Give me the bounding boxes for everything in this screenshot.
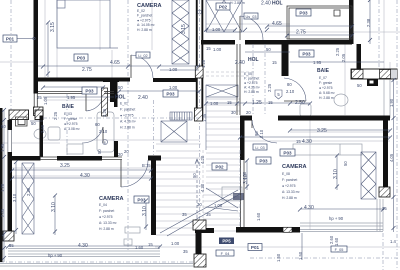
svg-text:20: 20: [124, 149, 129, 154]
svg-text:20: 20: [118, 152, 123, 157]
svg-text:A: 3.08 m²: A: 3.08 m²: [64, 127, 81, 131]
svg-text:F: parchet: F: parchet: [244, 77, 259, 81]
svg-text:4.30: 4.30: [304, 205, 314, 211]
room label CAMERA top-left: [137, 3, 162, 32]
svg-text:3.10: 3.10: [12, 193, 17, 202]
hatch block right room right: [379, 187, 390, 197]
sink left baie: [48, 127, 60, 140]
svg-text:P02: P02: [215, 165, 224, 170]
svg-text:4.65: 4.65: [110, 60, 120, 66]
room label HOL right: [235, 57, 261, 94]
radiator bottom-left room: [125, 227, 140, 233]
door arc bottom-right room: [252, 120, 277, 143]
label box P03 right room: [256, 157, 271, 164]
label box P03 balcony: [296, 9, 311, 16]
svg-text:F: parchet: F: parchet: [99, 209, 114, 213]
svg-text:1.95: 1.95: [313, 60, 322, 65]
svg-text:2.75: 2.75: [296, 30, 306, 36]
label box F_05: [331, 246, 347, 252]
svg-text:P03: P03: [85, 89, 94, 94]
svg-text:1.20: 1.20: [201, 59, 206, 68]
svg-text:HOL: HOL: [115, 95, 126, 101]
svg-text:50: 50: [343, 161, 348, 166]
sink right baie: [334, 94, 348, 106]
svg-text:4.05: 4.05: [389, 153, 394, 162]
room label BAIE right: [317, 68, 336, 100]
shaft black box right: [367, 79, 378, 86]
svg-text:A: 4.36 m²: A: 4.36 m²: [120, 120, 137, 124]
room label CAMERA bottom-right: [282, 164, 307, 200]
label box P03 left baie: [82, 87, 97, 94]
stair lower treads: [156, 144, 201, 235]
svg-text:● +2.975: ● +2.975: [319, 86, 333, 90]
svg-text:CAMERA: CAMERA: [282, 164, 307, 170]
door arc hol top Us_03: [240, 16, 263, 40]
room label HOL left: [115, 95, 137, 130]
lattice pier bottom-left room: [22, 163, 34, 234]
svg-text:2.05: 2.05: [341, 53, 346, 62]
room label BAIE left: [62, 104, 81, 131]
svg-text:35: 35: [183, 249, 188, 254]
svg-text:● +2.975: ● +2.975: [282, 184, 296, 188]
svg-text:A: 13.33 m²: A: 13.33 m²: [99, 221, 117, 225]
label box P03 bottom-left: [134, 196, 149, 203]
svg-text:3.10: 3.10: [333, 169, 339, 179]
svg-text:P03: P03: [299, 11, 308, 16]
svg-text:1.60: 1.60: [334, 237, 339, 246]
small wall stub left of P01 area: [195, 228, 214, 233]
label box Li_02: [136, 52, 150, 58]
svg-text:E_05: E_05: [244, 72, 252, 76]
balcony top-right outline: [287, 6, 352, 39]
svg-text:P03: P03: [259, 159, 268, 164]
svg-text:50: 50: [266, 47, 271, 52]
svg-text:4.20: 4.20: [200, 155, 205, 164]
svg-text:Li_02: Li_02: [138, 54, 147, 58]
svg-text:E_01: E_01: [120, 102, 128, 106]
wall right room right black: [383, 118, 388, 188]
furniture bottom-right room: [222, 187, 242, 200]
svg-text:1.60: 1.60: [256, 212, 261, 221]
svg-text:hp + 90: hp + 90: [329, 216, 344, 221]
svg-text:15: 15: [206, 46, 211, 51]
svg-text:● +2.975: ● +2.975: [137, 18, 151, 22]
svg-text:1.95: 1.95: [67, 95, 76, 100]
grey window band bottom-right room: [300, 199, 383, 232]
svg-text:A: 4.36 m²: A: 4.36 m²: [244, 86, 261, 90]
axis bottom right horizontal: [250, 257, 400, 259]
hatch block central wall upper: [195, 66, 203, 78]
svg-text:1.00: 1.00: [210, 101, 219, 106]
hatch box stair pier: [193, 220, 206, 230]
wall V2 left baie right: [114, 81, 118, 107]
svg-text:1.05: 1.05: [43, 96, 48, 105]
vertical thin double x237 stair/hol divider: [237, 44, 240, 115]
svg-text:2.50: 2.50: [295, 100, 305, 106]
wall right below corner: [357, 44, 362, 70]
svg-text:1.4: 1.4: [390, 239, 396, 244]
small white box window left: [16, 117, 28, 126]
svg-text:2.10: 2.10: [259, 129, 264, 138]
svg-text:4.30: 4.30: [242, 171, 247, 180]
svg-text:15: 15: [148, 242, 153, 247]
svg-text:1.90: 1.90: [389, 98, 394, 107]
label box P03 hol mid: [163, 90, 178, 97]
svg-text:E_03: E_03: [64, 112, 72, 116]
svg-text:H: 2.88 m: H: 2.88 m: [230, 1, 245, 5]
svg-text:P03: P03: [166, 92, 175, 97]
svg-text:2.40: 2.40: [138, 95, 148, 101]
lattice wardrobe top-left room: [172, 0, 189, 64]
svg-text:B:15: B:15: [142, 163, 151, 168]
svg-text:4.30: 4.30: [80, 173, 90, 179]
svg-text:E_02: E_02: [137, 9, 145, 13]
svg-text:2.25: 2.25: [335, 47, 340, 56]
svg-text:P02: P02: [219, 5, 228, 10]
svg-text:8: 8: [104, 141, 106, 145]
label box Li_03 right: [253, 144, 267, 150]
svg-text:3.15: 3.15: [50, 22, 56, 32]
label box P03 right room upper: [280, 149, 295, 156]
wall vertical right baie/hol: [282, 44, 289, 76]
axis central wall: [199, 0, 201, 235]
svg-text:35: 35: [206, 212, 211, 217]
svg-text:1.00: 1.00: [171, 241, 180, 246]
svg-text:P01: P01: [6, 37, 15, 42]
right wall of bottom-left room: [151, 156, 156, 236]
top wall bottom-left room: [8, 156, 41, 161]
svg-text:● +2.975: ● +2.975: [64, 122, 78, 126]
wall top-right vertical corner: [349, 0, 354, 44]
svg-text:CAMERA: CAMERA: [99, 196, 124, 202]
wall H2 top-right right segment: [245, 40, 352, 45]
label box Us_03: [244, 13, 258, 19]
svg-text:50: 50: [1, 124, 6, 129]
svg-text:HOL: HOL: [272, 1, 283, 7]
axis left: [10, 0, 12, 110]
svg-text:35: 35: [9, 243, 14, 248]
svg-text:F: gresie: F: gresie: [64, 117, 77, 121]
svg-text:2.25: 2.25: [53, 111, 58, 120]
svg-text:F_04: F_04: [221, 252, 230, 256]
svg-text:A: 14.05 m²: A: 14.05 m²: [137, 23, 155, 27]
svg-text:3.10: 3.10: [51, 202, 57, 212]
door arc right baie: [284, 78, 306, 101]
label box PP5 filled: [219, 238, 234, 245]
svg-text:2.10: 2.10: [286, 89, 295, 94]
svg-text:A: 5.68 m²: A: 5.68 m²: [319, 91, 336, 95]
left edge neighbor wall: [0, 108, 3, 262]
svg-text:PP5: PP5: [222, 239, 231, 244]
wc right baie: [300, 104, 311, 116]
svg-text:P03: P03: [77, 56, 86, 61]
bathtub left baie: [97, 112, 114, 152]
hatched exterior wall left chunk A: [9, 110, 29, 120]
grey window band bottom-left room: [8, 249, 160, 257]
svg-text:15: 15: [227, 100, 232, 105]
door 60 left baie lower: [82, 127, 118, 157]
hatched exterior wall left chunk B: [35, 110, 43, 120]
svg-text:H: 2.88 m: H: 2.88 m: [137, 28, 152, 32]
svg-text:● +2.975: ● +2.975: [244, 81, 258, 85]
svg-text:1.95: 1.95: [0, 143, 5, 152]
door arc left baie P03: [86, 93, 104, 111]
label box P02 stair: [212, 163, 227, 170]
svg-text:35: 35: [182, 212, 187, 217]
axis right dashed: [378, 0, 380, 80]
svg-text:2.30: 2.30: [26, 187, 31, 196]
svg-text:3.10: 3.10: [142, 206, 148, 216]
window band in left wall: [8, 130, 12, 152]
svg-text:2.60: 2.60: [40, 124, 45, 133]
label box P02 top: [216, 3, 230, 10]
radiator left HOL: [170, 112, 192, 120]
stair break diagonals: [160, 188, 240, 236]
svg-text:P01: P01: [251, 245, 260, 250]
wall top of bottom-right room main: [278, 116, 390, 121]
dimension chains blue: [8, 22, 390, 246]
svg-text:2.25: 2.25: [102, 108, 107, 117]
svg-text:H: 2.88 m: H: 2.88 m: [319, 96, 334, 100]
svg-text:50: 50: [118, 85, 123, 90]
svg-text:E_08: E_08: [282, 172, 290, 176]
svg-text:1.60: 1.60: [135, 245, 144, 250]
svg-text:25: 25: [37, 95, 42, 100]
wall grey right exterior upper: [384, 80, 390, 118]
svg-text:20: 20: [246, 110, 251, 115]
hatch block central wall lower: [195, 108, 203, 121]
wall top of bottom-right room left stub: [240, 116, 252, 121]
bottom-center wall y228: [236, 227, 300, 233]
wall left top vertical: [34, 0, 39, 94]
axis far right: [396, 0, 398, 270]
hatch block left wall bottom: [3, 231, 14, 241]
room label CAMERA bottom-left: [99, 196, 124, 231]
svg-text:50: 50: [192, 173, 197, 178]
pentagon marker 5 in right baie: [275, 90, 282, 99]
wc left baie: [34, 129, 46, 139]
svg-text:4.30: 4.30: [200, 183, 205, 192]
svg-text:2.25: 2.25: [267, 83, 272, 92]
svg-text:A: 13.33 m²: A: 13.33 m²: [282, 190, 300, 194]
hatch box below stair: [194, 254, 206, 267]
label box P03 right baie: [299, 50, 314, 57]
svg-text:F: gresie: F: gresie: [319, 81, 332, 85]
svg-text:E_04: E_04: [99, 203, 107, 207]
svg-text:HOL: HOL: [248, 57, 259, 63]
svg-text:2.38: 2.38: [366, 18, 371, 27]
wall H2 top-right left segment: [201, 40, 235, 45]
lattice pier top-center (stair flight above): [206, 0, 242, 97]
left exterior wall of bottom room: [8, 120, 13, 234]
door arc bottom-left room P03: [121, 160, 148, 187]
svg-text:4.65: 4.65: [272, 21, 282, 27]
terrace edge bottom-left: [0, 264, 193, 267]
svg-text:2.40: 2.40: [261, 1, 271, 7]
cabinet X left HOL: [161, 121, 187, 142]
label box F_04: [216, 250, 234, 256]
svg-text:4.30: 4.30: [78, 243, 88, 249]
hatched wall strip below T: [102, 88, 108, 116]
svg-text:60: 60: [95, 122, 100, 127]
svg-text:30: 30: [197, 202, 202, 207]
svg-text:15: 15: [268, 100, 273, 105]
axis x128: [127, 0, 129, 250]
svg-text:1.00: 1.00: [169, 67, 178, 72]
svg-text:● +2.975: ● +2.975: [120, 114, 134, 118]
wall H1 right part: [153, 78, 196, 82]
label box P03 top-left room: [74, 54, 88, 61]
svg-text:35: 35: [382, 206, 387, 211]
svg-text:Li_03: Li_03: [255, 146, 264, 150]
label box P01 bottom: [248, 244, 262, 251]
svg-text:4.30: 4.30: [302, 139, 312, 145]
svg-text:H: 2.88 m: H: 2.88 m: [99, 227, 114, 231]
svg-text:30: 30: [231, 110, 236, 115]
svg-text:50: 50: [31, 121, 36, 126]
bed in top-left room: [57, 0, 118, 48]
svg-text:2.40: 2.40: [235, 60, 245, 66]
lattice pier right room: [361, 152, 376, 199]
central spine wall double line: [196, 0, 198, 120]
svg-text:2.60: 2.60: [329, 235, 334, 244]
svg-text:15: 15: [296, 139, 301, 144]
svg-text:3.25: 3.25: [60, 163, 70, 169]
top stub right of door bottom-left room: [148, 156, 161, 161]
svg-text:F: parchet: F: parchet: [282, 178, 297, 182]
svg-text:2.10: 2.10: [99, 129, 108, 134]
label box P01 top-left: [3, 35, 35, 42]
wardrobe bottom-right room top: [293, 144, 362, 155]
svg-text:1.00: 1.00: [212, 27, 221, 32]
svg-text:1.35: 1.35: [202, 113, 207, 122]
svg-text:50: 50: [97, 149, 102, 154]
svg-text:H: 2.88 m: H: 2.88 m: [282, 196, 297, 200]
wall stub vertical below W10: [240, 116, 245, 161]
svg-text:Us_03: Us_03: [246, 15, 257, 19]
svg-text:P03: P03: [283, 151, 292, 156]
stair flight boundary dashed: [202, 150, 204, 235]
thin partition left baie: [38, 92, 114, 94]
wall T in hol left: horizontal stub: [103, 79, 119, 83]
svg-text:BAIE: BAIE: [317, 68, 330, 74]
svg-text:3.15: 3.15: [181, 24, 187, 34]
svg-text:80: 80: [287, 82, 292, 87]
wall H1 left part: [34, 78, 131, 82]
svg-text:2.75: 2.75: [82, 67, 92, 73]
svg-text:F: parchet: F: parchet: [120, 108, 135, 112]
hatch in bottom-center wall: [283, 227, 292, 232]
svg-text:P03: P03: [302, 52, 311, 57]
svg-text:hp + 90: hp + 90: [48, 253, 63, 258]
stair walk line with arrow: [195, 159, 199, 232]
wall T in hol left: vertical leg: [110, 82, 114, 102]
door arc top-left room P03: [131, 55, 153, 78]
svg-text:F_05: F_05: [335, 248, 344, 252]
svg-text:15: 15: [272, 60, 277, 65]
svg-text:1.00: 1.00: [169, 85, 178, 90]
axis bottom left horizontal: [0, 261, 200, 263]
stair upper treads: [203, 99, 240, 231]
svg-text:1.00: 1.00: [213, 47, 222, 52]
svg-text:1.00: 1.00: [214, 203, 223, 208]
svg-text:1.25: 1.25: [252, 100, 262, 106]
svg-text:1.50: 1.50: [276, 253, 281, 262]
svg-text:E_07: E_07: [319, 76, 327, 80]
svg-text:H: 2.88 m: H: 2.88 m: [244, 90, 259, 94]
svg-text:● +2.975: ● +2.975: [99, 215, 113, 219]
wall left vertical x40: [40, 116, 44, 158]
wall top-right hatched horizontal: [351, 69, 397, 79]
svg-text:H: 2.88 m: H: 2.88 m: [120, 126, 135, 130]
svg-text:BAIE: BAIE: [62, 104, 75, 110]
vertical bar below stair: [196, 230, 202, 254]
svg-text:F_parchet: F_parchet: [137, 14, 152, 18]
svg-text:50: 50: [357, 83, 362, 88]
svg-text:3.25: 3.25: [317, 128, 327, 134]
